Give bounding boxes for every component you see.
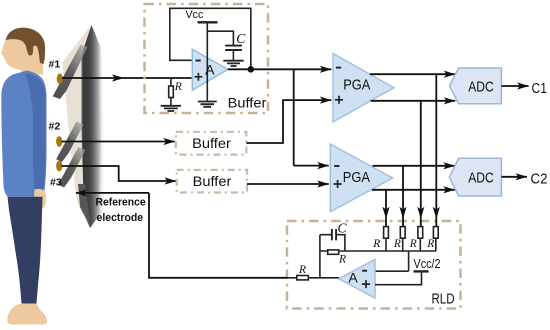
resistor R1 wires: [170, 78, 172, 106]
svg-text:R: R: [338, 254, 346, 266]
tap verticals into RLD: [386, 74, 436, 227]
svg-text:C: C: [338, 221, 348, 236]
A1 minus: [196, 60, 201, 62]
foot: [7, 304, 47, 325]
buffer3 box: [177, 170, 247, 193]
PGA1 to ADC1 wires: [370, 74, 455, 190]
face and neck: [1, 35, 43, 75]
A1 plus: [195, 73, 203, 81]
RLD A plus: [362, 280, 370, 288]
resistor R1: [169, 86, 174, 98]
svg-text:#3: #3: [50, 177, 62, 189]
svg-text:R: R: [298, 264, 306, 276]
ground under R1: [161, 106, 181, 111]
person: [1, 28, 47, 325]
hand: [34, 189, 46, 210]
RLD A minus: [362, 270, 367, 272]
RLD feedback resistor: [328, 250, 339, 254]
svg-text:Reference: Reference: [96, 196, 146, 208]
buffer1 box: [145, 4, 269, 113]
svg-text:Buffer: Buffer: [192, 135, 231, 151]
shirt: [1, 71, 46, 197]
svg-text:C1: C1: [532, 80, 548, 97]
RLD cap plates: [332, 229, 336, 240]
svg-text:C2: C2: [531, 171, 548, 188]
RLD output wire: [287, 277, 339, 279]
wire electrode3 to buffer3: [62, 166, 177, 181]
ADC1: [450, 68, 502, 104]
svg-text:A: A: [205, 62, 215, 78]
RLD series resistor: [297, 276, 309, 280]
svg-text:Buffer: Buffer: [193, 173, 232, 189]
RLD op-amp A: [339, 259, 375, 298]
wire to reference electrode: [76, 193, 287, 278]
svg-text:ADC: ADC: [468, 170, 494, 187]
buffer1 feedback loop wire: [170, 8, 251, 69]
svg-text:R: R: [372, 238, 380, 250]
svg-text:#2: #2: [49, 121, 61, 133]
Vcc/2 wire to plus input: [375, 271, 422, 284]
svg-text:R: R: [409, 238, 417, 250]
hair: [6, 28, 45, 65]
ADC2: [449, 158, 501, 196]
RLD resistor Rc: [418, 227, 423, 239]
svg-text:RLD: RLD: [432, 290, 455, 307]
svg-text:R: R: [393, 238, 401, 250]
RLD box: [287, 221, 461, 309]
svg-text:Vcc/2: Vcc/2: [414, 257, 441, 271]
RLD feedback left vertical: [319, 235, 321, 278]
svg-text:Buffer: Buffer: [228, 95, 267, 111]
panel dark edge strip: [82, 25, 105, 228]
PGA1 minus: [336, 67, 341, 69]
bottom wedge: [78, 184, 91, 228]
capacitor C feed wire: [207, 31, 233, 60]
RLD feedback cap wires: [320, 235, 345, 251]
electrode 3: [56, 161, 62, 172]
svg-text:R: R: [426, 238, 434, 250]
Vcc/2 bar: [414, 270, 429, 272]
PGA2 plus: [334, 180, 342, 188]
buffer3 output wire to PGA2 plus: [247, 183, 329, 185]
A1 power rail wire: [206, 22, 208, 101]
output node dot: [248, 66, 255, 73]
PGA2 minus: [334, 165, 339, 167]
reference electrode arrowhead (points left): [75, 189, 87, 196]
RLD resistor Rb: [400, 227, 405, 239]
electrode 2: [56, 136, 62, 147]
wedge 3: [58, 147, 85, 188]
PGA2: [330, 144, 392, 212]
svg-text:Vcc: Vcc: [186, 9, 204, 21]
wire electrode2 to buffer2: [62, 141, 175, 143]
drop to minus input: [375, 251, 409, 271]
RLD resistor Rd: [433, 227, 438, 239]
buffer2 output wire to PGA1 plus: [246, 100, 331, 143]
Vcc rail bar: [198, 21, 218, 23]
wedge 2: [56, 122, 83, 163]
electrode 1: [57, 73, 63, 84]
panel beige face: [63, 25, 102, 228]
pants: [8, 197, 43, 304]
svg-text:PGA: PGA: [343, 76, 370, 93]
buffer2 box: [176, 132, 246, 155]
ground under C: [223, 61, 243, 66]
ADC2 output arrow: [501, 176, 527, 178]
branch down to PGA2 minus: [293, 69, 295, 165]
op-amp A1: [192, 49, 228, 90]
wire electrode1 to buffer1: [62, 77, 192, 79]
svg-text:C: C: [236, 31, 246, 46]
svg-text:ADC: ADC: [468, 78, 494, 95]
PGA2 to ADC2 wires: [373, 165, 455, 167]
summing bus: [320, 250, 436, 252]
buffer1 output to PGA1 minus: [228, 69, 331, 165]
svg-text:electrode: electrode: [97, 212, 144, 224]
ADC1 output arrow: [501, 85, 528, 87]
svg-text:A: A: [348, 270, 358, 286]
PGA1 plus: [335, 96, 343, 104]
electrode panel: [53, 25, 105, 228]
svg-text:#1: #1: [49, 59, 61, 71]
capacitor C plates: [225, 46, 242, 50]
arm: [25, 73, 46, 189]
RLD resistor Ra: [384, 227, 389, 239]
ground under A1: [198, 102, 217, 107]
wedge 1: [53, 45, 88, 100]
svg-text:R: R: [174, 81, 182, 93]
svg-text:PGA: PGA: [343, 169, 370, 186]
RLD averaging resistors stubs: [320, 238, 436, 271]
PGA1: [333, 54, 394, 123]
